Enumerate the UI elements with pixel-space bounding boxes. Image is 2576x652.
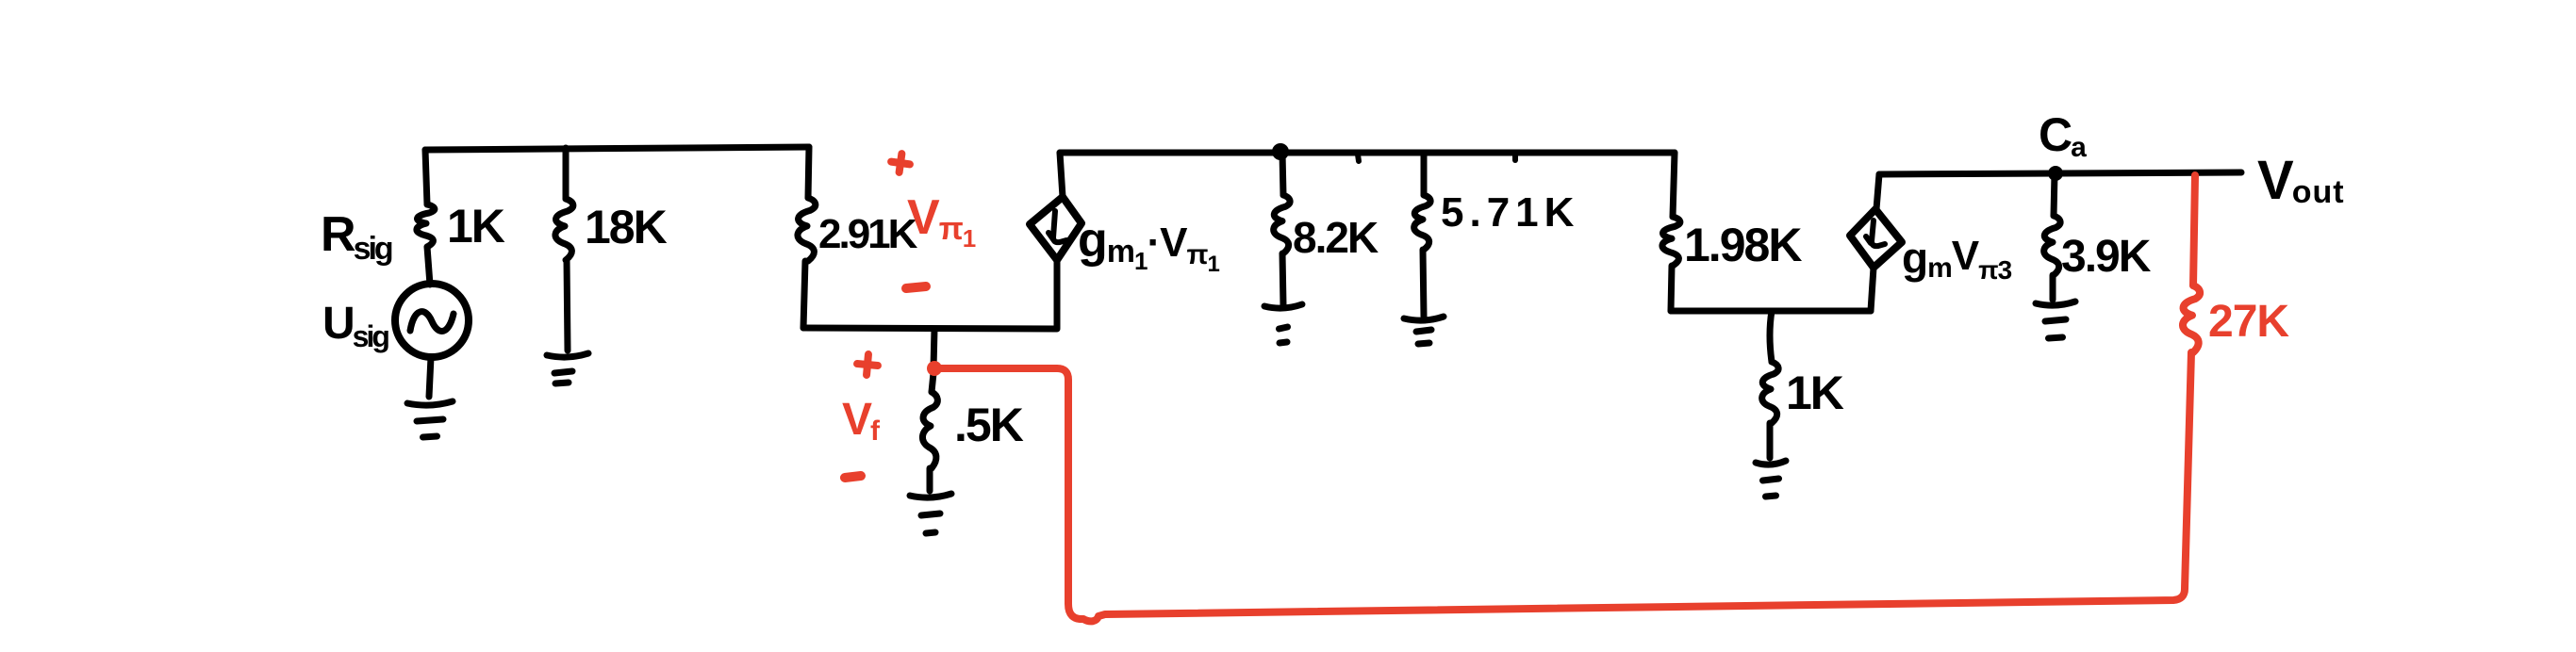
svg-text:8.2K: 8.2K <box>1293 213 1379 262</box>
svg-text:.5K: .5K <box>954 399 1024 451</box>
svg-text:1K: 1K <box>447 200 505 253</box>
svg-text:27K: 27K <box>2208 297 2289 347</box>
svg-text:2.91K: 2.91K <box>818 211 918 257</box>
svg-text:3.9K: 3.9K <box>2061 232 2152 282</box>
svg-text:5.71K: 5.71K <box>1441 189 1579 236</box>
svg-text:1K: 1K <box>1786 367 1844 419</box>
svg-text:1.98K: 1.98K <box>1684 219 1802 271</box>
svg-text:18K: 18K <box>585 201 668 253</box>
